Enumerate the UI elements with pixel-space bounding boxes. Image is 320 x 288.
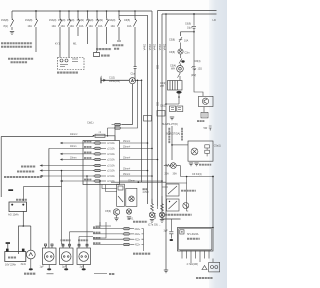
wire: SW7 drop [96,30,98,51]
svg-text:C6(9): C6(9) [185,23,191,26]
wire motor bottom to ground dot [30,259,32,268]
wire: cluster top row [111,181,166,183]
lamp unit box X2 [43,244,57,265]
node dot aux drop [186,176,188,178]
lamp in CDI box [191,148,198,155]
vertical labels near risers [143,189,150,194]
battery plus cap [6,242,10,244]
svg-text:Cb(1): Cb(1) [87,121,94,125]
aux motor small [183,203,189,209]
svg-text:4×5W: 4×5W [143,191,150,194]
svg-text:C6(8): C6(8) [169,51,175,54]
flasher IC labels [187,233,200,239]
node dot second feed [137,80,139,82]
node dot on link [23,225,25,227]
rotated label along wire [168,128,170,144]
small parts in CDI box [205,145,210,157]
caption: interlock note [8,59,34,63]
caption under SW1/SW2 taps [1,43,32,47]
svg-text:10A: 10A [89,25,94,28]
label C5(2) WH [160,82,166,88]
connector F0b [113,127,122,129]
ground end of outer drop [164,270,168,273]
wire: SW6 drop [87,30,89,44]
svg-text:C5(9): C5(9) [105,210,111,213]
MR relay box [166,184,179,196]
labels 20A 30A [165,173,178,176]
svg-text:10A: 10A [28,25,33,28]
lamp unit box X4 [77,244,91,264]
svg-text:16V 22Ah: 16V 22Ah [5,264,17,267]
switch SW3 tap [58,11,61,30]
wire: SW5 short drop [77,30,79,36]
grounds under CDI [189,163,193,166]
fuse row 1 [60,140,148,145]
wire: long drop to lamp unit [48,148,50,248]
wire: top right inner rail [162,13,217,15]
svg-text:30A: 30A [173,173,178,176]
svg-text:20A: 20A [165,173,170,176]
svg-text:10μF: 10μF [187,27,193,30]
caption under load [197,120,205,122]
svg-text:M1: M1 [73,42,77,46]
caption bottom right [196,277,213,279]
ground dot under motor [29,268,33,270]
horn B1 symbol [94,51,100,57]
plus terminal cap [8,189,13,191]
wire: drop to right column [194,32,203,97]
switch SW1 tap [10,11,13,30]
fuse F1 main [93,134,107,137]
flasher box [178,228,214,252]
wire lamp row to right [176,166,213,177]
resistor tick on column [192,66,197,70]
signal row 4 [93,243,141,247]
fuse row 3 [60,152,115,156]
page background [0,0,227,288]
lamp L2 [149,212,154,217]
wire: key switch riser [24,186,62,201]
resistor R12 [161,204,164,211]
wire: row 8 drop [99,181,101,226]
headlamp L4 [177,66,184,73]
caption turn signal circuit [133,253,151,255]
svg-text:20mA: 20mA [148,44,151,51]
svg-text:10A: 10A [111,25,116,28]
wire below regulator [203,107,205,113]
wire: left feed down [0,137,2,198]
fuse block outline [83,141,120,185]
node dot [138,181,140,183]
relay box K1 tall [117,184,125,206]
small load box [201,112,208,118]
wire: SW8 drop [106,30,108,44]
svg-text:4×5W: 4×5W [153,213,156,220]
svg-text:≠2 10A: ≠2 10A [107,148,115,151]
wire: drop to aux motor [187,177,189,212]
wire: chain continues down [171,126,173,160]
wire: SW2 drop to horn group [35,30,37,52]
rectifier-regulator dashed box U3 [58,58,85,70]
svg-text:≠2 10A: ≠2 10A [107,153,115,156]
battery posts [6,249,25,252]
switch SW4 tap [67,11,70,30]
ground dot under X2 [47,268,51,270]
connector box on risers lower [144,116,152,122]
rotated label along wire b [181,128,183,141]
svg-text:≠2 10A: ≠2 10A [107,142,115,145]
diode D2 [202,266,208,270]
svg-text:C1a: C1a [131,74,136,76]
wire: SW9 drop end bar [117,30,121,41]
svg-text:10A: 10A [98,25,103,28]
wire under coil [166,94,179,104]
switch SW9 tap [117,11,120,30]
svg-text:4C2+: 4C2+ [135,238,141,241]
wire: second feed from ammeter row [122,80,138,128]
svg-text:SH-J023A: SH-J023A [187,233,199,236]
wire motor top [30,226,32,250]
svg-text:4C2+: 4C2+ [135,233,141,236]
wire: X4 right pin riser [93,222,111,238]
svg-text:12Ω: 12Ω [198,68,203,71]
ground dot under X3 [64,268,68,270]
node dot [178,96,180,98]
transistor Q1 [113,209,119,218]
node dot right [212,176,214,178]
fuse row 5 [21,164,115,167]
regulator box with transistor [199,96,214,106]
switch under lamp [178,72,181,80]
lamp L1 [126,209,131,214]
switch SW5 tap [76,11,79,30]
svg-text:AG 10Ah: AG 10Ah [8,213,19,217]
resistor small left of lamp [164,164,172,166]
coil blob [176,91,181,94]
svg-text:15A(9): 15A(9) [96,19,104,22]
wire: row 6 drop to X3 [62,171,64,246]
wire: five riser wires from bus [134,11,180,220]
ground under magneto [170,117,174,120]
wire: pin jog X3b [70,232,94,246]
wire: SW10 long drop to ammeter [134,30,137,80]
svg-text:(2W): (2W) [191,74,196,77]
svg-text:10mΩ(3m): 10mΩ(3m) [109,81,120,83]
svg-text:≠2 10A: ≠2 10A [107,165,115,168]
spark plug pair [170,106,183,112]
svg-text:15A(8): 15A(8) [25,19,33,22]
lamp unit box X3 [60,244,74,264]
label horn [101,55,110,57]
svg-text:3μF: 3μF [164,230,169,233]
wire: top bus lower line [119,14,148,16]
svg-text:C5mm: C5mm [128,180,135,182]
fuse block rows [4,140,162,183]
resistor R11 [151,204,154,211]
switch on chain top [179,37,182,46]
pilot lamp L5 [170,163,176,169]
fuse row 7 [4,173,152,178]
svg-text:10mm²: 10mm² [70,133,78,136]
ground under SW1 [10,32,14,35]
svg-text:C5a(1): C5a(1) [214,146,221,148]
svg-text:C5(8): C5(8) [169,39,175,42]
node dot row6 tee [61,170,63,172]
capacitor drop C6(9) [192,14,196,32]
svg-text:10A: 10A [52,25,57,28]
node dot row7 tee [86,175,88,177]
label under rectifier box [57,72,79,74]
caption starter relay [165,214,192,216]
flasher comb pins [180,251,211,259]
svg-text:20mA: 20mA [153,44,156,51]
lamp L3 [159,212,164,217]
ground under L2 [150,220,154,223]
svg-text:WH: WH [160,85,164,88]
svg-text:≠2 10A: ≠2 10A [107,170,115,173]
wire into CDI [172,144,188,146]
svg-text:15mm²: 15mm² [123,173,130,176]
indicator lamp box K2 [126,188,137,206]
svg-text:3μF: 3μF [62,265,67,268]
svg-text:C8(4): C8(4) [195,60,201,63]
key switch terminals [11,204,24,206]
pins below box [191,259,213,264]
svg-text:≠2 10A: ≠2 10A [107,159,115,162]
X4 pin labels [78,239,89,241]
ammeter A1 [129,78,135,84]
svg-text:4C2+: 4C2+ [135,228,141,231]
wire: battery bus link [19,211,31,254]
svg-text:8(1): 8(1) [4,25,9,28]
battery label inside [8,257,17,259]
label MR [181,190,196,192]
wire: top main bus [12,10,152,12]
svg-text:1μF: 1μF [40,265,45,268]
ground under L1 [127,217,131,220]
CDI box [188,141,213,161]
svg-text:4.7kΩ(1W): 4.7kΩ(1W) [187,263,199,266]
svg-text:10A: 10A [184,40,189,43]
fuse row 2 [49,145,152,150]
wire: row 7 drop to X4 [86,176,88,246]
wire: relay row link [166,182,187,184]
signal row 1 [93,227,141,231]
connector F0a [113,123,122,125]
svg-text:10mm: 10mm [70,146,76,148]
svg-text:JMK1: JMK1 [127,218,134,221]
wire: main feed 10mm2 from left [1,136,93,138]
caption under CDI [199,164,211,166]
svg-text:4C2+: 4C2+ [135,244,141,247]
fuse row 4 [60,157,158,162]
battery feed plus terminal [101,77,129,83]
label NC [16,199,27,201]
node dot chain feed [193,31,195,33]
capacitor on feed [169,219,173,239]
caption battery voltage [127,218,147,222]
svg-text:15A(9): 15A(9) [86,19,94,22]
svg-text:15mm²: 15mm² [123,145,130,148]
wire: SW3 drop to rectifier box [59,30,61,58]
ground under Q1 [114,218,118,221]
svg-text:15mm²: 15mm² [123,140,130,143]
svg-text:10A: 10A [79,25,84,28]
fuse rating labels row (taps) [1,19,132,28]
key switch box S0 [9,202,27,212]
switch SW8 tap [105,11,108,30]
dash marks bottom [47,273,108,275]
svg-text:15A(8): 15A(8) [1,19,9,22]
svg-text:C6(2): C6(2) [160,105,166,108]
node dots at fuse F1 [93,135,109,137]
connector box bottom right [209,262,220,272]
ground blob beside chain [181,60,184,62]
node dot at vertical [165,103,167,105]
fuse row 8 [60,180,162,184]
svg-text:15A(9): 15A(9) [77,19,85,22]
caption lighting [109,273,115,275]
svg-text:BL/MHL-PT(D): BL/MHL-PT(D) [162,123,178,126]
tail lamp small [178,46,183,57]
svg-text:≠2 10A: ≠2 10A [107,180,115,183]
fuse row 6 [17,168,148,173]
svg-text:C6(5): C6(5) [124,19,130,22]
switch SW10 tap [133,11,136,30]
svg-text:20mA: 20mA [163,44,166,51]
wire riser to R12 [152,187,168,209]
svg-text:+: + [100,74,102,78]
svg-text:15mm²: 15mm² [123,157,130,160]
svg-text:SCR/GT(5A): SCR/GT(5A) [166,133,180,136]
svg-text:15A(9): 15A(9) [67,19,75,22]
wire: right edge vertical [212,177,214,228]
wire: top right outer rail [158,10,217,12]
right page-edge shaded band [209,0,227,288]
wire: signal rows collector [142,229,144,251]
wire: long right vertical [165,14,167,270]
svg-text:10A: 10A [70,25,75,28]
svg-text:20mA: 20mA [143,44,146,51]
node dot flasher top right [212,227,214,229]
svg-text:KY1: KY1 [55,42,60,46]
connector box on risers upper [157,111,165,117]
wire: SW4 drop to rectifier box [68,30,70,58]
svg-text:15A(9): 15A(9) [58,19,66,22]
label under SW9 [113,45,124,49]
switch SW2 tap [34,11,37,30]
svg-text:≠2 10A: ≠2 10A [107,175,115,178]
wire: chain feed from capacitor drop [181,32,195,36]
wire: fuse F1 to block [107,136,115,141]
svg-text:3μF: 3μF [80,265,85,268]
node dots rows to risers [147,142,163,182]
caption: horn note [96,48,111,50]
caption starter motor [24,273,36,275]
ground dot under X4 [82,268,86,270]
wire: connector to block [108,125,116,141]
riser current labels (rotated) [143,44,166,51]
svg-text:3mΩ: 3mΩ [21,263,26,266]
svg-text:10mm: 10mm [70,157,76,159]
switch SW6 tap [86,11,89,30]
node dot [171,144,173,146]
wire: ammeter down to fuse block feed [122,84,132,125]
switch SW7 tap [95,11,98,30]
ignition coil T1 [168,81,183,91]
lamp L0 in box [129,196,134,201]
starter relay box [167,199,180,211]
flasher inner pin square [180,230,184,234]
ground under L3 [160,220,164,223]
svg-text:15mm²: 15mm² [123,168,130,171]
X3 pin labels [61,239,72,241]
wire: block bottom feeds [102,185,117,192]
plug symbol [209,126,212,131]
riser tick marks [156,66,159,105]
signal row 3 [93,238,141,242]
signal row 2 [93,233,141,237]
svg-text:20mA: 20mA [158,44,161,51]
svg-text:15A(9): 15A(9) [49,19,57,22]
battery GB [5,252,26,262]
svg-text:15A(9): 15A(9) [108,19,116,22]
svg-text:10A: 10A [127,25,132,28]
wire battery plus [7,244,9,249]
svg-text:C1(2): C1(2) [109,77,115,79]
svg-text:(C7a C8) →: (C7a C8) → [148,224,161,227]
svg-text:WH: WH [171,68,175,71]
blob under capacitor [170,239,174,241]
starter motor M [26,250,35,259]
node dot row8 tee [99,180,101,182]
label C5(4) WH [170,65,176,71]
svg-text:LD: LD [213,18,216,22]
svg-text:C2m: C2m [185,52,190,55]
svg-text:C6 K3(4): C6 K3(4) [192,173,202,176]
switch on chain mid [179,57,182,65]
node: bus junction dots [35,10,195,81]
svg-text:10A: 10A [61,25,66,28]
